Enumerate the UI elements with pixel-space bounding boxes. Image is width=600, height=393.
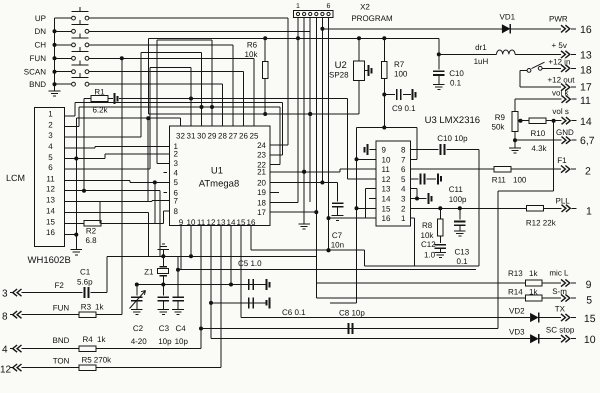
svg-text:U2: U2 xyxy=(335,60,347,71)
terminal GND xyxy=(562,137,566,144)
svg-text:28: 28 xyxy=(218,132,227,141)
wire VD3 to SC terminal xyxy=(538,338,561,340)
junction pin5 line xyxy=(153,180,157,184)
wire LCM pin5 to U1 pin2 xyxy=(76,158,105,160)
wire bus y40 to U1 pin29 xyxy=(157,39,212,41)
svg-text:13: 13 xyxy=(217,218,226,227)
capacitor C6 xyxy=(248,297,250,308)
svg-text:R6: R6 xyxy=(247,41,258,50)
switch SCAN xyxy=(55,71,72,73)
terminal BND(left) xyxy=(10,348,13,350)
wire U1 pin21 to U3 pin11 xyxy=(270,171,340,173)
svg-text:12: 12 xyxy=(382,175,391,184)
wire +12 out xyxy=(520,69,527,71)
svg-text:27: 27 xyxy=(229,132,238,141)
svg-text:C4: C4 xyxy=(176,324,187,333)
terminal SC stop xyxy=(561,335,565,342)
svg-text:GND: GND xyxy=(556,128,574,137)
svg-text:VD2: VD2 xyxy=(509,307,525,316)
svg-text:F1: F1 xyxy=(557,156,567,165)
svg-text:5: 5 xyxy=(401,175,406,184)
junction X2 pin1 / R6 line xyxy=(296,36,300,40)
wire mic L feed xyxy=(316,256,318,283)
svg-text:10: 10 xyxy=(382,155,391,164)
wire riser x141 to LCM pin3 xyxy=(140,52,142,137)
resistor R3 xyxy=(79,312,96,318)
IC U3 body xyxy=(376,141,411,226)
svg-text:vol k: vol k xyxy=(552,89,569,98)
wire node line y38 (program/+5v feed) xyxy=(149,37,439,39)
junction lower bus / X2 pin6 drop xyxy=(327,248,331,252)
junction R6 top xyxy=(263,36,267,40)
svg-text:23: 23 xyxy=(257,151,266,160)
svg-text:2: 2 xyxy=(585,166,591,178)
svg-text:16: 16 xyxy=(382,214,391,223)
svg-text:4: 4 xyxy=(48,142,53,151)
wire vol k row xyxy=(515,98,562,100)
wire VD1 to terminal xyxy=(510,28,561,30)
svg-text:R14: R14 xyxy=(508,288,523,297)
svg-text:VD3: VD3 xyxy=(509,328,525,337)
svg-text:15: 15 xyxy=(46,217,55,226)
wire wiper to R10 xyxy=(521,120,530,122)
wire U3 pin8 to C10 xyxy=(411,149,439,151)
svg-text:29: 29 xyxy=(208,132,217,141)
resistor R12 xyxy=(526,206,543,212)
svg-text:24: 24 xyxy=(257,141,266,150)
resistor R6 xyxy=(262,62,268,79)
wire crystal bottom line y284 (C5 row) xyxy=(137,284,267,286)
svg-text:4: 4 xyxy=(174,169,179,178)
wire X2 pin1 drop to U1 pin18 xyxy=(297,18,299,203)
svg-text:R7: R7 xyxy=(394,60,405,69)
wire C9 lead xyxy=(384,94,395,96)
svg-text:VD1: VD1 xyxy=(500,13,516,22)
wire U3 pin3 to contact xyxy=(411,198,427,200)
svg-text:18: 18 xyxy=(580,65,592,77)
IC U1 ATmega8 body xyxy=(169,126,270,226)
junction U3 pin3/pin4 xyxy=(415,197,419,201)
svg-text:100: 100 xyxy=(513,176,527,185)
wire R8 bottom to C12 xyxy=(439,236,441,243)
junction vol s xyxy=(552,119,556,123)
svg-text:3: 3 xyxy=(48,131,53,140)
wire SC stop row xyxy=(211,338,530,340)
junction R9 wiper xyxy=(519,119,523,123)
U1 pin19 stub xyxy=(270,191,279,193)
svg-text:1: 1 xyxy=(401,214,406,223)
wire R1 right lead xyxy=(108,98,113,100)
wire R9 wiper xyxy=(518,120,522,122)
svg-text:17: 17 xyxy=(580,82,592,94)
svg-text:1k: 1k xyxy=(95,303,104,312)
terminal F1 xyxy=(561,166,565,173)
wire R4 to U1 pin11 drop xyxy=(96,348,201,350)
wire C2 ground riser xyxy=(136,301,138,310)
resistor R13 xyxy=(526,280,543,286)
junction X2 pin2 / U3 pin11 line xyxy=(302,170,306,174)
switch DN xyxy=(55,30,72,32)
junction U1 pin10 on C1 line xyxy=(189,254,193,258)
resistor R11 xyxy=(494,166,511,172)
svg-text:16: 16 xyxy=(580,24,592,36)
wire U1 pin17 stub xyxy=(270,211,316,213)
svg-text:100: 100 xyxy=(394,70,408,79)
wire inductor to terminal xyxy=(515,53,561,55)
wire PLL row outside module xyxy=(497,207,526,209)
wire R3 to FUN switch riser xyxy=(96,314,122,316)
junction X2 pin5 / U1 pin20 line xyxy=(320,181,324,185)
capacitor C8 xyxy=(348,323,350,334)
wire BND terminal to R4 xyxy=(22,348,80,350)
wire Z1 top riser xyxy=(162,249,164,266)
wire C11 right xyxy=(427,178,437,180)
wire U3 pin5 to C11 xyxy=(411,178,419,180)
wire LCM pin13 to U1 pin7 xyxy=(65,201,152,203)
wire U1 pin12 drop to SC row xyxy=(210,226,212,339)
svg-text:10k: 10k xyxy=(245,50,259,59)
wire C10 ground riser xyxy=(438,75,440,84)
junction U3 pin15 / screen xyxy=(355,206,359,210)
svg-text:2: 2 xyxy=(401,204,406,213)
svg-text:+12 in: +12 in xyxy=(548,58,570,67)
junction R1 riser / LCM pin12 xyxy=(82,189,86,193)
wire C12 ground riser xyxy=(439,248,441,252)
contact (C5) xyxy=(266,279,268,290)
svg-text:26: 26 xyxy=(239,132,248,141)
wire R7 top lead xyxy=(383,38,385,61)
junction X2 pin5 / PWR line xyxy=(320,27,324,31)
wire U2 bottom lead xyxy=(358,80,360,114)
wire U1 pin16 drop to lower bus xyxy=(250,226,252,251)
svg-text:C10 10p: C10 10p xyxy=(437,134,468,143)
svg-text:14: 14 xyxy=(46,206,55,215)
junction R8 top xyxy=(438,206,442,210)
wire U1 pin11 drop to R4 line xyxy=(200,226,202,349)
svg-text:3: 3 xyxy=(174,159,179,168)
wire LCM pin1 riser xyxy=(74,103,76,117)
svg-text:10: 10 xyxy=(187,218,196,227)
wire U3 pin13 elbow xyxy=(365,188,376,190)
svg-text:1uH: 1uH xyxy=(474,57,489,66)
svg-text:C10: C10 xyxy=(449,69,464,78)
wire C2 riser xyxy=(136,285,138,296)
capacitor C4 xyxy=(172,296,184,298)
svg-text:X2: X2 xyxy=(360,3,370,12)
junction X2 pin6 / U3 pin16 line xyxy=(327,216,331,220)
svg-text:17: 17 xyxy=(257,208,266,217)
wire FUN row to U1 pin25 riser xyxy=(89,57,254,59)
junction xyxy=(53,56,57,60)
svg-text:11: 11 xyxy=(46,174,55,183)
svg-text:15: 15 xyxy=(382,204,391,213)
svg-text:1: 1 xyxy=(296,3,300,10)
wire bus y107 to U1 pin22 xyxy=(79,106,280,108)
contact (U2 side) xyxy=(364,70,367,72)
junction y107/U1 pin29 riser xyxy=(210,105,214,109)
svg-text:8: 8 xyxy=(2,312,8,323)
svg-text:R2: R2 xyxy=(86,227,97,236)
ground (C10) xyxy=(433,83,445,85)
svg-text:U1: U1 xyxy=(211,166,223,177)
svg-text:4.3k: 4.3k xyxy=(531,144,547,153)
ground (LCM) xyxy=(71,249,83,251)
wire R5 to U1 pin13 drop xyxy=(96,367,221,369)
svg-text:6: 6 xyxy=(327,3,331,10)
wire U1 pin14 drop xyxy=(230,226,232,285)
svg-text:7: 7 xyxy=(401,155,406,164)
svg-text:0.1: 0.1 xyxy=(450,79,462,88)
wire bus y118 to U1 pin32 xyxy=(76,117,180,119)
svg-text:8: 8 xyxy=(174,207,179,216)
svg-text:1: 1 xyxy=(48,110,53,119)
capacitor C12 xyxy=(435,244,447,246)
resistor R1 xyxy=(91,96,108,102)
svg-text:1k: 1k xyxy=(529,288,538,297)
svg-text:C1: C1 xyxy=(80,268,91,277)
wire R1 left lead down to LCM pin12 line xyxy=(84,98,91,100)
contact (U3 pin9) xyxy=(370,149,377,151)
junction LCM pin16 xyxy=(74,233,78,237)
svg-text:C5 1.0: C5 1.0 xyxy=(238,259,262,268)
wire CH row to U1 pin27 riser xyxy=(89,44,233,46)
svg-text:C8 10p: C8 10p xyxy=(339,309,365,318)
svg-text:15: 15 xyxy=(237,218,246,227)
wire +5v row left xyxy=(439,53,497,55)
terminal F2 xyxy=(10,292,13,294)
diode VD2 xyxy=(530,313,539,322)
svg-text:C9 0.1: C9 0.1 xyxy=(392,104,416,113)
wire LCM pin16 to ground xyxy=(65,234,77,236)
wire UP row to U1 pin24 riser xyxy=(89,17,288,19)
switch BND xyxy=(55,83,72,85)
resistor R10 xyxy=(529,118,546,124)
ground (C3) xyxy=(158,309,170,311)
terminal vol k xyxy=(562,96,566,103)
junction C9 tap xyxy=(382,93,386,97)
wire R8 top lead xyxy=(439,208,441,219)
svg-text:R8: R8 xyxy=(422,221,433,230)
wire C4/Z1 right riser xyxy=(177,256,179,296)
wire X2 pin2 drop to ground xyxy=(303,18,305,224)
wire R7 bottom lead xyxy=(383,79,385,128)
svg-text:PLL: PLL xyxy=(556,197,571,206)
wire BND row to U1 pin28 riser xyxy=(89,83,223,85)
junction R9 bottom / GND row xyxy=(513,138,517,142)
junction U1 pin12 drop / C6 xyxy=(209,301,213,305)
svg-text:32: 32 xyxy=(176,132,185,141)
svg-text:R9: R9 xyxy=(495,113,506,122)
wire LCM pin4 to U1 pin1 xyxy=(65,147,95,149)
svg-text:18: 18 xyxy=(257,198,266,207)
ground (C4) xyxy=(172,309,184,311)
svg-text:6: 6 xyxy=(401,165,406,174)
wire R14 to S-m terminal xyxy=(542,297,561,299)
svg-text:13: 13 xyxy=(580,50,592,62)
svg-text:100p: 100p xyxy=(449,195,467,204)
svg-text:SCAN: SCAN xyxy=(24,67,46,76)
svg-text:4: 4 xyxy=(2,345,8,356)
wire C13 riser xyxy=(459,208,461,219)
wire C1 net line y256 xyxy=(107,255,317,257)
wire bus y52 to U1 pin30 xyxy=(141,51,202,53)
wire X2 pin3 drop xyxy=(309,18,311,203)
wire C10 riser xyxy=(438,54,440,69)
svg-text:6,7: 6,7 xyxy=(580,135,595,147)
switch FUN xyxy=(55,57,72,59)
wire U3 pin6 to R11 (F1 row) xyxy=(411,168,495,170)
junction pin21 ground riser xyxy=(302,170,306,174)
svg-text:FUN: FUN xyxy=(53,304,70,313)
svg-text:R11: R11 xyxy=(492,176,507,185)
svg-text:7: 7 xyxy=(174,197,179,206)
terminal +12 out xyxy=(561,84,565,91)
wire R9 ground riser xyxy=(514,140,516,148)
svg-text:2: 2 xyxy=(174,150,179,159)
wire U3 pin12 stub part xyxy=(348,178,376,180)
svg-text:14: 14 xyxy=(382,195,391,204)
U1 pin6 nc stub xyxy=(163,192,167,194)
svg-text:0.1: 0.1 xyxy=(457,257,469,266)
junction R7 top xyxy=(382,36,386,40)
switch UP xyxy=(55,17,72,19)
wire LCM pin15 to R2 xyxy=(65,222,84,224)
capacitor C5 xyxy=(248,279,250,290)
terminal PLL xyxy=(562,205,566,212)
wire R6 bottom lead xyxy=(264,79,266,115)
connector LCM body xyxy=(35,108,65,247)
switch S2 (+12) xyxy=(527,69,531,73)
svg-text:1k: 1k xyxy=(529,269,538,278)
wire riser x154.8 xyxy=(154,182,156,223)
svg-text:WH1602B: WH1602B xyxy=(28,255,71,266)
junction C2 riser xyxy=(135,283,139,287)
wire R6 bottom bus y114 xyxy=(149,113,359,115)
svg-text:R13: R13 xyxy=(508,269,523,278)
svg-text:10p: 10p xyxy=(175,337,189,346)
wire LCM pin14 riser xyxy=(65,211,149,213)
wire SCAN row to U1 pin26 riser xyxy=(89,71,244,73)
junction R1 line / U1 pin31 riser xyxy=(189,97,193,101)
svg-text:30: 30 xyxy=(197,132,206,141)
ground (switch bus) xyxy=(54,88,56,91)
contact (U3 pin3) xyxy=(428,193,430,204)
C7 ground riser xyxy=(337,207,339,216)
svg-text:10n: 10n xyxy=(331,241,344,250)
svg-text:11: 11 xyxy=(580,95,591,107)
svg-text:PROGRAM: PROGRAM xyxy=(351,14,393,23)
svg-text:25: 25 xyxy=(250,132,259,141)
svg-text:10p: 10p xyxy=(158,337,172,346)
trimmer capacitor C2 xyxy=(131,296,143,298)
junction U2 top xyxy=(357,36,361,40)
svg-text:1: 1 xyxy=(586,206,592,218)
svg-text:BND: BND xyxy=(53,336,70,345)
svg-text:PWR: PWR xyxy=(549,15,568,24)
junction X2 pin6 / lower bus xyxy=(327,248,331,252)
junction riser x76 / LCM pin5 stub xyxy=(65,158,77,160)
svg-text:2: 2 xyxy=(48,120,53,129)
svg-text:11: 11 xyxy=(197,218,206,227)
svg-text:C11: C11 xyxy=(449,185,464,194)
module bottom wire xyxy=(364,265,479,267)
svg-text:R3: R3 xyxy=(81,303,92,312)
junction Z1 top / C1 line xyxy=(161,254,165,258)
connector X2 header xyxy=(294,11,333,18)
module screen left xyxy=(356,128,358,303)
svg-text:R4: R4 xyxy=(83,335,94,344)
wire U1 pin9 drop / XTAL line xyxy=(180,226,182,270)
resistor R7 xyxy=(382,62,388,79)
svg-text:+12 out: +12 out xyxy=(548,76,576,85)
U3 pin14 stub xyxy=(369,198,376,200)
svg-text:10k: 10k xyxy=(421,231,435,240)
terminal TON xyxy=(10,367,13,369)
wire U3 pin15 stub xyxy=(357,207,377,209)
wire R9 bottom xyxy=(514,132,516,141)
svg-text:3: 3 xyxy=(401,195,406,204)
terminal mic L xyxy=(561,279,565,286)
capacitor C11 xyxy=(420,173,422,184)
contact (C11) xyxy=(437,173,439,184)
wire LCM pin11 to U1 pin5 xyxy=(65,179,130,181)
ground (C12) xyxy=(435,252,447,254)
svg-text:1.0: 1.0 xyxy=(424,251,436,260)
junction xyxy=(53,43,57,47)
diode VD1 xyxy=(502,24,511,33)
contact (C9) xyxy=(412,89,414,100)
svg-text:4: 4 xyxy=(401,185,406,194)
ground (C7) xyxy=(332,215,344,217)
capacitor C9 xyxy=(396,89,398,100)
wire riser x150 to LCM pin6 xyxy=(149,67,151,169)
filter U2 xyxy=(354,61,365,81)
wire U3 pin1 elbow xyxy=(411,217,415,219)
wire LCM pin2 riser xyxy=(78,107,80,127)
svg-text:dr1: dr1 xyxy=(475,43,487,52)
capacitor C3 xyxy=(158,296,170,298)
terminal PWR xyxy=(561,25,565,32)
svg-text:1k: 1k xyxy=(97,335,106,344)
junction y118/DB riser xyxy=(146,116,150,120)
wire U1 pin15 drop to TX row xyxy=(240,226,242,318)
wire C3 ground riser xyxy=(162,301,164,310)
svg-text:SC stop: SC stop xyxy=(546,326,575,335)
junction xyxy=(53,29,57,33)
junction +5v / C10 xyxy=(437,52,441,56)
switch bus wire xyxy=(54,18,56,88)
wire X2 pin6 drop xyxy=(328,18,330,251)
wire VD2 to TX terminal xyxy=(538,317,561,319)
wire riser to U1 pin3 xyxy=(156,40,158,163)
wire U1 pin13 drop to TON row xyxy=(220,226,222,368)
resistor R5 xyxy=(79,365,96,371)
svg-text:9: 9 xyxy=(179,218,184,227)
wire U1 pin20 line to C7 xyxy=(270,182,338,184)
wire LCM ground riser xyxy=(75,235,77,250)
svg-text:12: 12 xyxy=(46,185,55,194)
ground (X2 pin2) xyxy=(298,223,310,225)
switch CH xyxy=(55,44,72,46)
svg-text:ATmega8: ATmega8 xyxy=(199,179,239,190)
junction U3 pin10 / screen xyxy=(355,157,359,161)
svg-text:TX: TX xyxy=(555,305,566,314)
svg-text:12: 12 xyxy=(207,218,216,227)
potentiometer R9 xyxy=(512,112,518,132)
wire R6 top lead xyxy=(264,38,266,61)
junction XTAL line / C4 riser xyxy=(176,268,180,272)
capacitor C13 xyxy=(454,221,466,223)
